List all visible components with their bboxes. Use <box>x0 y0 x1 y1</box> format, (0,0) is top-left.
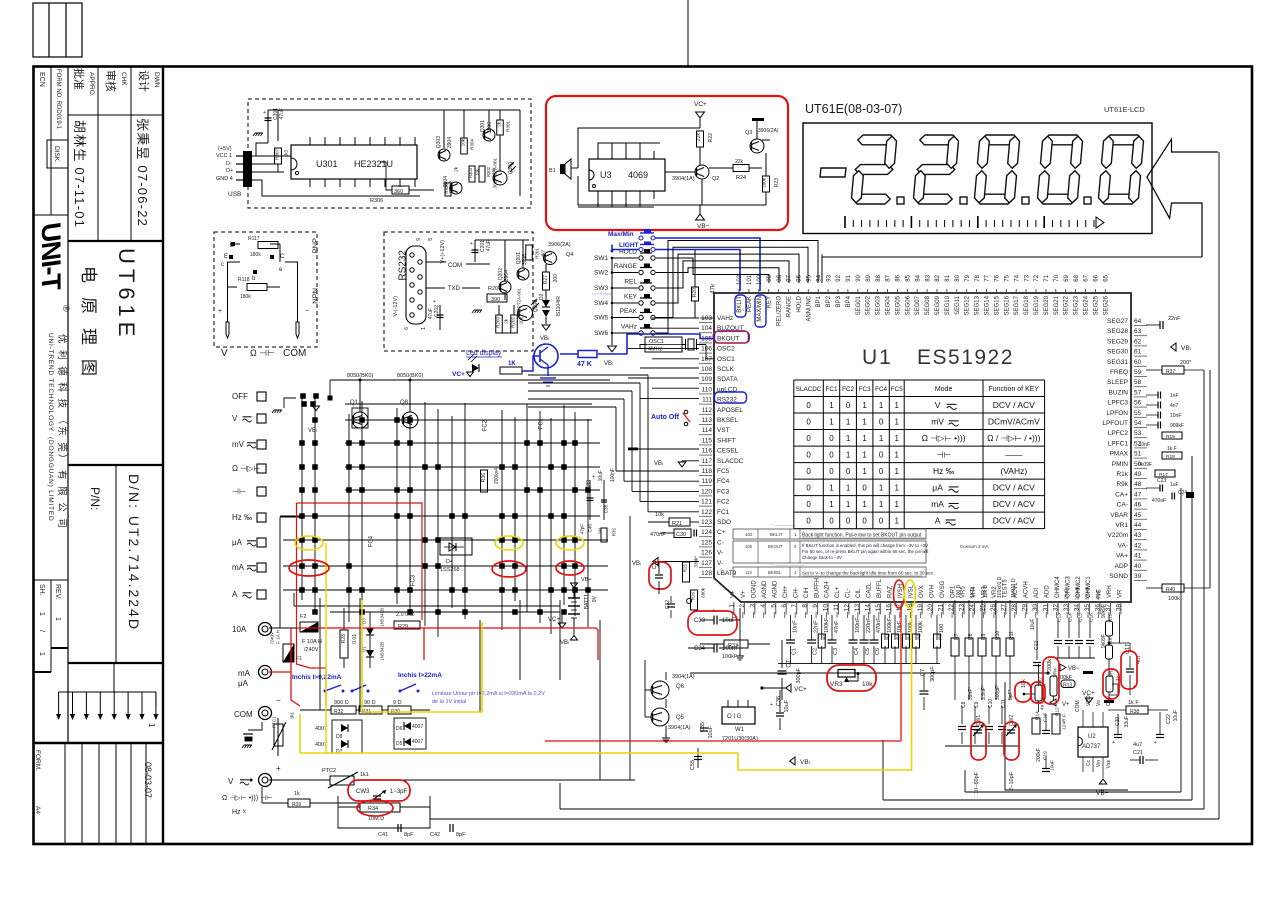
svg-text:R26: R26 <box>690 592 695 601</box>
svg-text:101: 101 <box>747 274 753 285</box>
svg-text:Back light function. Pul-e low: Back light function. Pul-e low to set BK… <box>802 533 922 539</box>
svg-text:SW5: SW5 <box>594 315 608 322</box>
svg-text:1: 1 <box>38 652 45 656</box>
svg-text:OSC1: OSC1 <box>717 356 735 363</box>
svg-text:9: 9 <box>416 238 422 241</box>
svg-text:122: 122 <box>701 509 712 516</box>
svg-text:1: 1 <box>846 500 851 509</box>
svg-text:15: 15 <box>875 604 882 612</box>
svg-text:IVSL: IVSL <box>908 584 914 598</box>
svg-text:33: 33 <box>1063 604 1070 612</box>
svg-text:CW1: CW1 <box>976 715 982 726</box>
svg-text:21: 21 <box>938 604 945 612</box>
svg-text:SDATA: SDATA <box>717 376 738 383</box>
svg-text:SEG13: SEG13 <box>975 295 981 315</box>
svg-text:SW1: SW1 <box>594 255 608 262</box>
svg-text:BKLIT: BKLIT <box>770 532 783 537</box>
svg-text:11: 11 <box>833 604 840 611</box>
svg-text:1N5342B: 1N5342B <box>379 608 384 627</box>
svg-text:VR: VR <box>1118 589 1124 598</box>
svg-text:PNP: PNP <box>311 238 320 253</box>
svg-text:200: 200 <box>553 274 559 283</box>
svg-text:de la 1V initial: de la 1V initial <box>432 699 466 705</box>
svg-text:10k: 10k <box>862 681 873 688</box>
svg-text:DWN: DWN <box>153 72 160 88</box>
svg-text:FORM NO. RDD019-1: FORM NO. RDD019-1 <box>55 69 61 130</box>
svg-text:32: 32 <box>1053 604 1060 612</box>
svg-text:98: 98 <box>777 274 783 281</box>
svg-text:95: 95 <box>807 274 813 281</box>
svg-text:Q6: Q6 <box>676 684 685 690</box>
svg-text:1k1: 1k1 <box>289 712 294 720</box>
svg-text:VDD: VDD <box>1086 695 1092 706</box>
svg-text:1: 1 <box>846 451 851 460</box>
svg-text:UT61E-LCD: UT61E-LCD <box>1104 105 1145 114</box>
svg-text:OVH: OVH <box>929 585 935 598</box>
svg-text:C24: C24 <box>1178 490 1187 496</box>
svg-text:29: 29 <box>1021 604 1028 612</box>
svg-text:65: 65 <box>1104 274 1110 281</box>
svg-text:200k: 200k <box>1047 659 1053 671</box>
svg-text:VBAR: VBAR <box>1110 512 1128 519</box>
svg-text:0: 0 <box>829 517 834 526</box>
svg-text:1: 1 <box>38 612 45 616</box>
svg-text:——: —— <box>1005 450 1023 460</box>
svg-text:61: 61 <box>1134 349 1142 356</box>
svg-text:R12: R12 <box>1055 707 1061 716</box>
svg-text:41: 41 <box>1134 553 1142 560</box>
svg-text:SEG20: SEG20 <box>1044 295 1050 315</box>
svg-text:38: 38 <box>1115 604 1122 612</box>
svg-text:10uF: 10uF <box>1173 710 1179 721</box>
svg-text:BKOUT: BKOUT <box>768 544 783 549</box>
svg-text:VC+: VC+ <box>794 686 807 693</box>
svg-text:Q303: Q303 <box>436 136 442 148</box>
svg-text:302PT2A-001: 302PT2A-001 <box>516 288 521 316</box>
svg-text:F 1A H: F 1A H <box>275 630 280 644</box>
svg-text:FC1: FC1 <box>826 386 838 393</box>
svg-text:9V: 9V <box>592 595 598 602</box>
svg-text:1k F: 1k F <box>1167 446 1177 452</box>
svg-text:VB−: VB− <box>697 223 710 230</box>
svg-text:100: 100 <box>939 624 945 633</box>
svg-text:1: 1 <box>421 327 427 330</box>
svg-text:U301: U301 <box>316 159 338 169</box>
svg-text:39nF*: 39nF* <box>968 687 974 700</box>
svg-text:Consum 3 mA: Consum 3 mA <box>960 544 989 549</box>
svg-text:96: 96 <box>797 274 803 281</box>
svg-text:R5: R5 <box>916 634 921 640</box>
svg-text:CESEL: CESEL <box>717 448 739 455</box>
svg-text:R305: R305 <box>444 183 449 193</box>
svg-text:111: 111 <box>702 397 712 404</box>
svg-text:64: 64 <box>1134 318 1142 325</box>
svg-text:ADP: ADP <box>1115 563 1128 570</box>
svg-text:10: 10 <box>823 604 830 612</box>
svg-text:Ω ⊣⊢: Ω ⊣⊢ <box>250 348 275 358</box>
svg-text:78: 78 <box>975 274 981 281</box>
svg-text:μA: μA <box>232 538 243 547</box>
svg-text:R2: R2 <box>885 634 890 640</box>
svg-text:R28: R28 <box>341 634 347 643</box>
svg-text:4007: 4007 <box>412 739 423 745</box>
svg-text:1: 1 <box>895 451 900 460</box>
svg-text:C10: C10 <box>988 699 994 708</box>
svg-text:+: + <box>433 299 436 305</box>
svg-text:330nF: 330nF <box>1085 586 1091 600</box>
svg-text:SEG21: SEG21 <box>1054 295 1060 315</box>
svg-text:UT61E: UT61E <box>114 248 139 341</box>
svg-text:1SS268: 1SS268 <box>440 567 460 573</box>
svg-text:VBₗ: VBₗ <box>632 561 641 567</box>
svg-text:31: 31 <box>1042 604 1049 612</box>
svg-text:Hz ☓: Hz ☓ <box>232 809 247 816</box>
svg-text:R21: R21 <box>672 521 682 527</box>
svg-text:A: A <box>232 590 238 599</box>
svg-text:8050(BK0): 8050(BK0) <box>347 373 373 379</box>
svg-text:57: 57 <box>1134 389 1142 396</box>
svg-text:F 10A H: F 10A H <box>302 639 322 645</box>
svg-text:1: 1 <box>862 451 867 460</box>
svg-text:⊣⊢: ⊣⊢ <box>936 450 951 460</box>
svg-text:5: 5 <box>428 238 434 241</box>
svg-text:0: 0 <box>829 467 834 476</box>
svg-text:V: V <box>232 414 238 423</box>
svg-text:300pF: 300pF <box>796 667 802 683</box>
svg-text:1: 1 <box>895 418 900 427</box>
svg-text:10nF: 10nF <box>793 620 799 633</box>
svg-text:66: 66 <box>1094 274 1100 281</box>
svg-text:1k1: 1k1 <box>360 772 369 778</box>
svg-text:113: 113 <box>702 417 713 424</box>
svg-text:GND 4: GND 4 <box>216 176 233 182</box>
svg-text:R301: R301 <box>505 121 510 132</box>
svg-text:VCC 1: VCC 1 <box>216 153 232 159</box>
svg-text:R34: R34 <box>368 806 378 812</box>
svg-text:R307: R307 <box>274 149 279 160</box>
svg-text:FC5: FC5 <box>717 468 730 475</box>
svg-text:10nF: 10nF <box>1170 413 1181 419</box>
svg-text:If BKLIT function is enabled,: If BKLIT function is enabled, this pin w… <box>802 543 928 548</box>
svg-text:®: ® <box>61 305 71 312</box>
svg-text:R14: R14 <box>1035 711 1041 720</box>
svg-text:R3: R3 <box>895 634 900 640</box>
svg-text:R32: R32 <box>334 709 343 715</box>
svg-text:3904(1A): 3904(1A) <box>672 176 695 182</box>
svg-text:72: 72 <box>1034 274 1040 281</box>
svg-text:R29: R29 <box>398 624 408 630</box>
svg-text:DCV / ACV: DCV / ACV <box>993 400 1035 410</box>
svg-text:106: 106 <box>701 346 712 353</box>
svg-text:VA-: VA- <box>1118 542 1128 549</box>
svg-text:COM: COM <box>448 263 462 269</box>
svg-text:0: 0 <box>879 451 884 460</box>
svg-text:Max/Min: Max/Min <box>608 231 634 238</box>
svg-text:1: 1 <box>147 723 156 728</box>
svg-text:+: + <box>218 308 222 315</box>
svg-text:R1k: R1k <box>1116 471 1128 478</box>
svg-text:FC2: FC2 <box>717 499 730 506</box>
svg-text:100 D: 100 D <box>956 584 962 598</box>
svg-text:4069: 4069 <box>628 170 648 180</box>
svg-text:47: 47 <box>1134 491 1142 498</box>
svg-text:VA+: VA+ <box>1116 553 1128 560</box>
svg-text:R37: R37 <box>1166 369 1175 375</box>
svg-text:VC+: VC+ <box>452 371 465 378</box>
svg-text:D-: D- <box>226 161 232 167</box>
svg-text:10nF: 10nF <box>1064 589 1070 600</box>
svg-text:R4: R4 <box>906 634 911 640</box>
svg-text:RS232: RS232 <box>398 250 409 281</box>
svg-text:mA: mA <box>238 669 251 678</box>
svg-text:Limitare Umax ptr I=2,2mA si I: Limitare Umax ptr I=2,2mA si I=220mA la … <box>432 691 545 697</box>
svg-text:V: V <box>221 348 228 359</box>
svg-text:77: 77 <box>985 274 991 281</box>
svg-text:AGND: AGND <box>762 580 768 598</box>
svg-text:1M111 D: 1M111 D <box>1011 578 1017 598</box>
svg-text:87: 87 <box>886 274 892 281</box>
svg-text:5: 5 <box>770 604 777 608</box>
svg-text:V+: V+ <box>741 590 747 598</box>
svg-text:100nF: 100nF <box>610 468 616 482</box>
svg-text:1: 1 <box>862 434 867 443</box>
svg-text:R40: R40 <box>1166 587 1175 593</box>
svg-text:1: 1 <box>829 484 834 493</box>
svg-text:67: 67 <box>1084 274 1090 281</box>
svg-text:C39: C39 <box>586 480 592 489</box>
svg-text:BP4: BP4 <box>846 295 852 307</box>
svg-text:U2: U2 <box>1088 734 1096 740</box>
svg-text:2k: 2k <box>453 166 458 172</box>
svg-text:0: 0 <box>806 434 811 443</box>
svg-text:UT61E(08-03-07): UT61E(08-03-07) <box>805 102 902 116</box>
svg-text:82: 82 <box>935 274 941 281</box>
svg-text:CH-: CH- <box>793 587 799 598</box>
svg-text:Ω ⊣▷⊢ •))) ⊣⊢: Ω ⊣▷⊢ •))) ⊣⊢ <box>222 795 272 802</box>
svg-text:DGND: DGND <box>752 580 758 598</box>
svg-text:mV: mV <box>931 417 944 427</box>
svg-text:47nF: 47nF <box>1096 589 1102 600</box>
svg-text:LPFC1: LPFC1 <box>1108 440 1129 447</box>
svg-text:4MHz: 4MHz <box>648 347 663 353</box>
svg-text:SDO: SDO <box>717 519 731 526</box>
svg-text:8: 8 <box>802 604 809 608</box>
svg-text:47k: 47k <box>711 283 717 294</box>
svg-text:PEAK: PEAK <box>620 308 638 315</box>
svg-text:KEY: KEY <box>624 294 638 301</box>
svg-text:302PT12A-001: 302PT12A-001 <box>492 158 497 189</box>
svg-text:Q8: Q8 <box>400 400 409 406</box>
svg-text:3904(1A): 3904(1A) <box>672 674 695 680</box>
svg-text:SGND: SGND <box>1109 573 1128 580</box>
svg-text:3.9nF*: 3.9nF* <box>981 685 987 700</box>
svg-text:VBₗ: VBₗ <box>654 461 663 467</box>
svg-text:0: 0 <box>829 451 834 460</box>
svg-text:+: + <box>1112 740 1115 746</box>
svg-text:COM: COM <box>1075 700 1081 712</box>
svg-text:100k: 100k <box>918 621 924 633</box>
svg-text:MAX/MIN: MAX/MIN <box>757 296 763 322</box>
svg-text:4u7: 4u7 <box>1133 742 1142 748</box>
svg-text:··· ——— ————: ··· ——— ———— <box>770 562 804 567</box>
svg-text:0: 0 <box>806 401 811 410</box>
svg-text:SEG25: SEG25 <box>1093 295 1099 315</box>
svg-text:10uF: 10uF <box>598 470 604 481</box>
svg-text:0: 0 <box>862 484 867 493</box>
svg-text:V: V <box>228 777 234 786</box>
svg-text:1: 1 <box>728 604 735 608</box>
svg-text:Cc: Cc <box>1086 760 1092 767</box>
svg-text:REL/ZERO: REL/ZERO <box>777 296 783 326</box>
svg-text:1: 1 <box>829 500 834 509</box>
svg-text:10uF: 10uF <box>708 725 714 738</box>
svg-text:Auto Off: Auto Off <box>651 414 680 421</box>
svg-text:1k F: 1k F <box>1128 700 1139 706</box>
svg-text:1: 1 <box>846 434 851 443</box>
svg-text:C11: C11 <box>1001 699 1007 708</box>
svg-text:C202: C202 <box>434 305 440 317</box>
svg-text:CHK: CHK <box>120 72 127 86</box>
svg-text:R203: R203 <box>495 317 500 328</box>
svg-text:F2: F2 <box>300 614 306 620</box>
svg-text:1: 1 <box>895 401 900 410</box>
svg-text:C38: C38 <box>603 505 608 514</box>
svg-text:Hz ‰: Hz ‰ <box>933 466 955 476</box>
svg-text:CA-: CA- <box>1117 502 1128 509</box>
svg-text:D4: D4 <box>446 559 453 565</box>
svg-text:47 K: 47 K <box>577 361 592 368</box>
svg-text:FC5: FC5 <box>891 386 903 393</box>
svg-text:84: 84 <box>915 274 921 281</box>
svg-text:VAHz: VAHz <box>717 315 733 322</box>
svg-text:121: 121 <box>701 499 712 506</box>
svg-text:VBₗ: VBₗ <box>800 759 810 766</box>
svg-text:127: 127 <box>701 560 712 567</box>
svg-text:COM: COM <box>234 710 253 719</box>
svg-text:68: 68 <box>1074 274 1080 281</box>
svg-text:R118: R118 <box>238 277 250 283</box>
svg-text:7: 7 <box>791 604 798 608</box>
svg-text:R117: R117 <box>248 236 260 242</box>
svg-text:D/N: UT2.714.224D: D/N: UT2.714.224D <box>126 474 142 631</box>
svg-text:V-(-12V): V-(-12V) <box>393 296 399 317</box>
svg-text:46: 46 <box>1134 502 1142 509</box>
svg-text:C20: C20 <box>1115 717 1121 726</box>
svg-text:R16: R16 <box>1107 637 1112 646</box>
svg-text:OSC1: OSC1 <box>649 339 664 345</box>
svg-text:10nF: 10nF <box>1139 442 1150 448</box>
svg-text:112: 112 <box>702 407 713 414</box>
svg-text:优 利 德 科 技 （东 莞） 有 限 公 司: 优 利 德 科 技 （东 莞） 有 限 公 司 <box>56 334 68 530</box>
svg-text:47uF: 47uF <box>486 240 492 251</box>
svg-text:C4: C4 <box>854 648 860 655</box>
svg-text:39: 39 <box>1134 573 1142 580</box>
svg-text:SEG03: SEG03 <box>876 295 882 315</box>
svg-text:100nF: 100nF <box>855 617 861 633</box>
svg-text:110: 110 <box>702 386 713 393</box>
svg-text:COM: COM <box>283 348 306 359</box>
svg-text:SEG11: SEG11 <box>955 295 961 315</box>
svg-text:58: 58 <box>1134 379 1142 386</box>
svg-text:Hz ‰: Hz ‰ <box>232 513 252 522</box>
svg-text:0: 0 <box>879 418 884 427</box>
svg-text:U3: U3 <box>600 170 612 180</box>
svg-text:C15: C15 <box>1078 613 1084 622</box>
svg-text:Inchis I>22mA: Inchis I>22mA <box>398 672 442 679</box>
svg-text:9k09F: 9k09F <box>1101 634 1107 648</box>
svg-text:··· —————: ··· ————— <box>770 522 795 527</box>
svg-text:Q4: Q4 <box>566 252 573 258</box>
svg-text:0: 0 <box>806 467 811 476</box>
svg-text:1: 1 <box>846 484 851 493</box>
svg-text:VB−: VB− <box>1068 666 1080 672</box>
svg-text:SEG01: SEG01 <box>856 295 862 315</box>
svg-text:SEG16: SEG16 <box>1004 295 1010 315</box>
svg-text:45: 45 <box>1134 512 1142 519</box>
svg-text:C14: C14 <box>1068 613 1074 622</box>
svg-text:R36: R36 <box>481 473 487 482</box>
svg-text:2k: 2k <box>503 318 508 324</box>
svg-text:U1: U1 <box>862 346 893 369</box>
svg-text:PTC2: PTC2 <box>322 768 336 774</box>
svg-text:V220m: V220m <box>1107 532 1128 539</box>
svg-text:1: 1 <box>54 617 61 621</box>
svg-text:08-03-07: 08-03-07 <box>143 762 153 798</box>
svg-text:KEY: KEY <box>767 296 773 308</box>
svg-text:180k: 180k <box>250 252 261 258</box>
svg-text:1uF: 1uF <box>1170 482 1179 488</box>
svg-text:C9: C9 <box>974 701 980 708</box>
svg-text:28: 28 <box>1011 604 1018 612</box>
svg-text:(+5V): (+5V) <box>218 146 232 152</box>
svg-text:SEG05: SEG05 <box>895 295 901 315</box>
svg-text:C2: C2 <box>813 648 819 655</box>
svg-text:C1: C1 <box>792 648 798 655</box>
svg-text:⊣⊢: ⊣⊢ <box>232 487 246 496</box>
svg-text:42: 42 <box>1134 542 1142 549</box>
svg-text:TXD: TXD <box>448 286 461 292</box>
svg-text:102: 102 <box>745 532 753 537</box>
svg-text:−: − <box>276 696 281 705</box>
svg-text:LPFC3: LPFC3 <box>1108 400 1129 407</box>
svg-text:71: 71 <box>1044 274 1050 281</box>
svg-text:CH+: CH+ <box>783 585 789 598</box>
svg-text:680k: 680k <box>700 587 705 598</box>
svg-text:C12: C12 <box>1034 641 1040 650</box>
svg-text:SEG07: SEG07 <box>915 295 921 315</box>
svg-text:ADD: ADD <box>1044 585 1050 598</box>
svg-text:SEG15: SEG15 <box>994 295 1000 315</box>
svg-text:3904(1A): 3904(1A) <box>668 725 691 731</box>
svg-text:SEG10: SEG10 <box>945 295 951 315</box>
svg-text:mA: mA <box>232 563 245 572</box>
svg-text:10uF: 10uF <box>784 699 790 712</box>
svg-text:1: 1 <box>895 434 900 443</box>
svg-text:10kF: 10kF <box>897 620 903 633</box>
svg-text:0: 0 <box>806 484 811 493</box>
svg-text:R9k: R9k <box>1116 481 1128 488</box>
svg-text:1: 1 <box>879 401 884 410</box>
svg-text:220nF: 220nF <box>866 617 872 633</box>
svg-text:LPFON: LPFON <box>1106 410 1128 417</box>
svg-text:Mode: Mode <box>935 386 953 393</box>
svg-text:SH.: SH. <box>38 584 45 596</box>
svg-text:CA+: CA+ <box>1115 491 1128 498</box>
svg-text:101k01 D: 101k01 D <box>997 576 1003 598</box>
svg-text:OSC2: OSC2 <box>717 346 735 353</box>
svg-text:TEST5: TEST5 <box>1003 579 1009 598</box>
svg-text:R202: R202 <box>510 317 515 328</box>
